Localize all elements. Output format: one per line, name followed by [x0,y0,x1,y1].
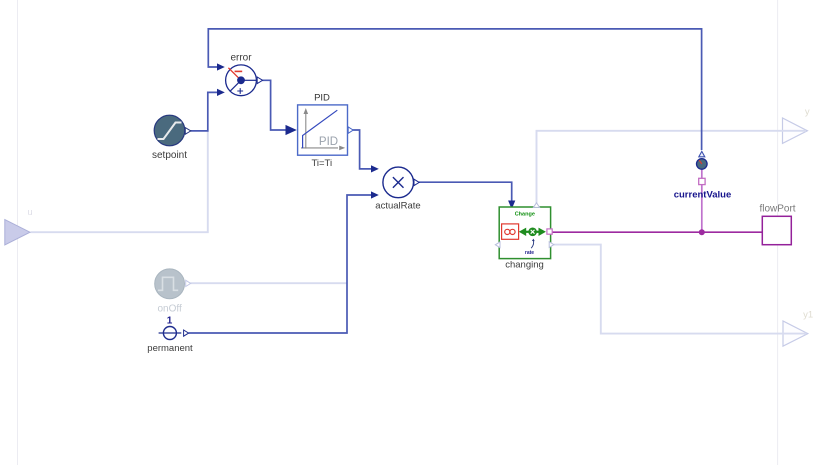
svg-text:permanent: permanent [147,343,193,354]
canvas right edge [777,0,779,465]
svg-text:y1: y1 [803,310,813,321]
canvas left edge [17,0,19,465]
svg-text:1: 1 [167,316,173,327]
controller block PID [298,93,354,169]
wire feedback currentValue to error [208,29,701,150]
source block setpoint [152,115,191,161]
output connector y [783,107,810,144]
sensor currentValue [674,151,732,200]
junction node [699,229,705,235]
connector flowPort [759,204,795,245]
svg-text:rate: rate [525,250,534,256]
svg-text:currentValue: currentValue [674,190,732,201]
svg-text:PID: PID [319,136,338,148]
wire actualRate to changing [419,182,516,209]
svg-text:flowPort: flowPort [759,204,795,215]
svg-text:error: error [230,52,252,63]
wire onOff to permanent wire (faint) [191,282,348,284]
output connector y1 [783,310,813,347]
svg-text:changing: changing [505,260,544,271]
wire changing top to y (faint) [537,131,807,203]
svg-text:actualRate: actualRate [375,200,420,211]
wire currentValue sensor drop (orchid) [701,169,703,232]
wire changing bottom-right to y1 (faint) [554,245,807,334]
wire error to PID [262,80,297,135]
svg-text:y: y [805,107,810,118]
wire PID to actualRate [352,130,379,173]
input connector u [5,207,33,245]
svg-text:PID: PID [314,93,330,104]
wire u to setpoint node (faint) [31,132,208,233]
svg-text:Ti=Ti: Ti=Ti [311,158,332,169]
svg-text:Change: Change [515,212,535,218]
wire setpoint to error [191,89,225,131]
svg-text:setpoint: setpoint [152,150,187,161]
svg-text:u: u [27,207,32,218]
constant block permanent [147,316,193,355]
svg-text:onOff: onOff [157,304,181,315]
source block onOff (faded) [155,269,191,315]
wire changing to flowPort (magenta) [552,231,762,233]
sum block error [226,52,263,95]
block changing [495,203,554,271]
wire permanent to actualRate [189,191,379,333]
product block actualRate [375,167,420,211]
